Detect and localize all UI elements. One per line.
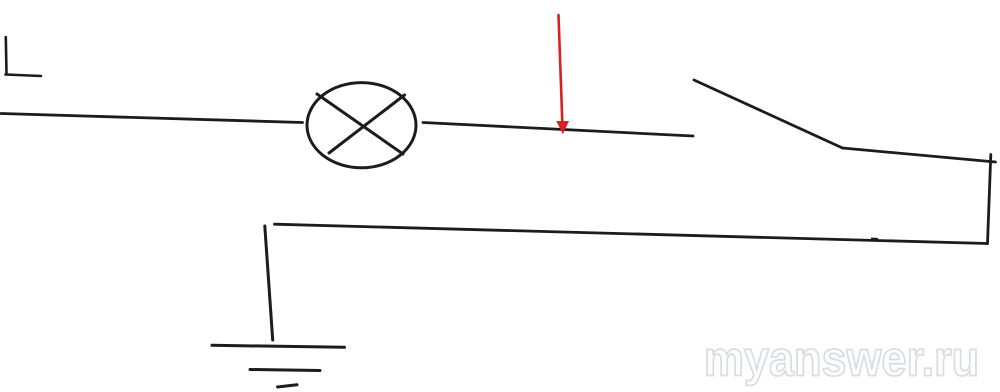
wire right vertical (988, 155, 991, 244)
current direction arrow (red) (556, 15, 569, 134)
wire from lamp to switch (423, 123, 693, 137)
lamp EL1 (307, 83, 416, 168)
wire from L to lamp (1, 114, 303, 123)
junction blob on bottom wire (871, 238, 878, 242)
wire bottom return (275, 224, 988, 243)
svg-text:myanswer.ru: myanswer.ru (704, 332, 979, 387)
ground symbol (212, 345, 345, 387)
watermark myanswer.ru (704, 332, 979, 387)
node L (phase terminal label) (6, 37, 42, 76)
wire left vertical to ground (265, 226, 273, 340)
wire from switch to right edge (843, 148, 996, 162)
switch S1 blade (694, 80, 843, 148)
